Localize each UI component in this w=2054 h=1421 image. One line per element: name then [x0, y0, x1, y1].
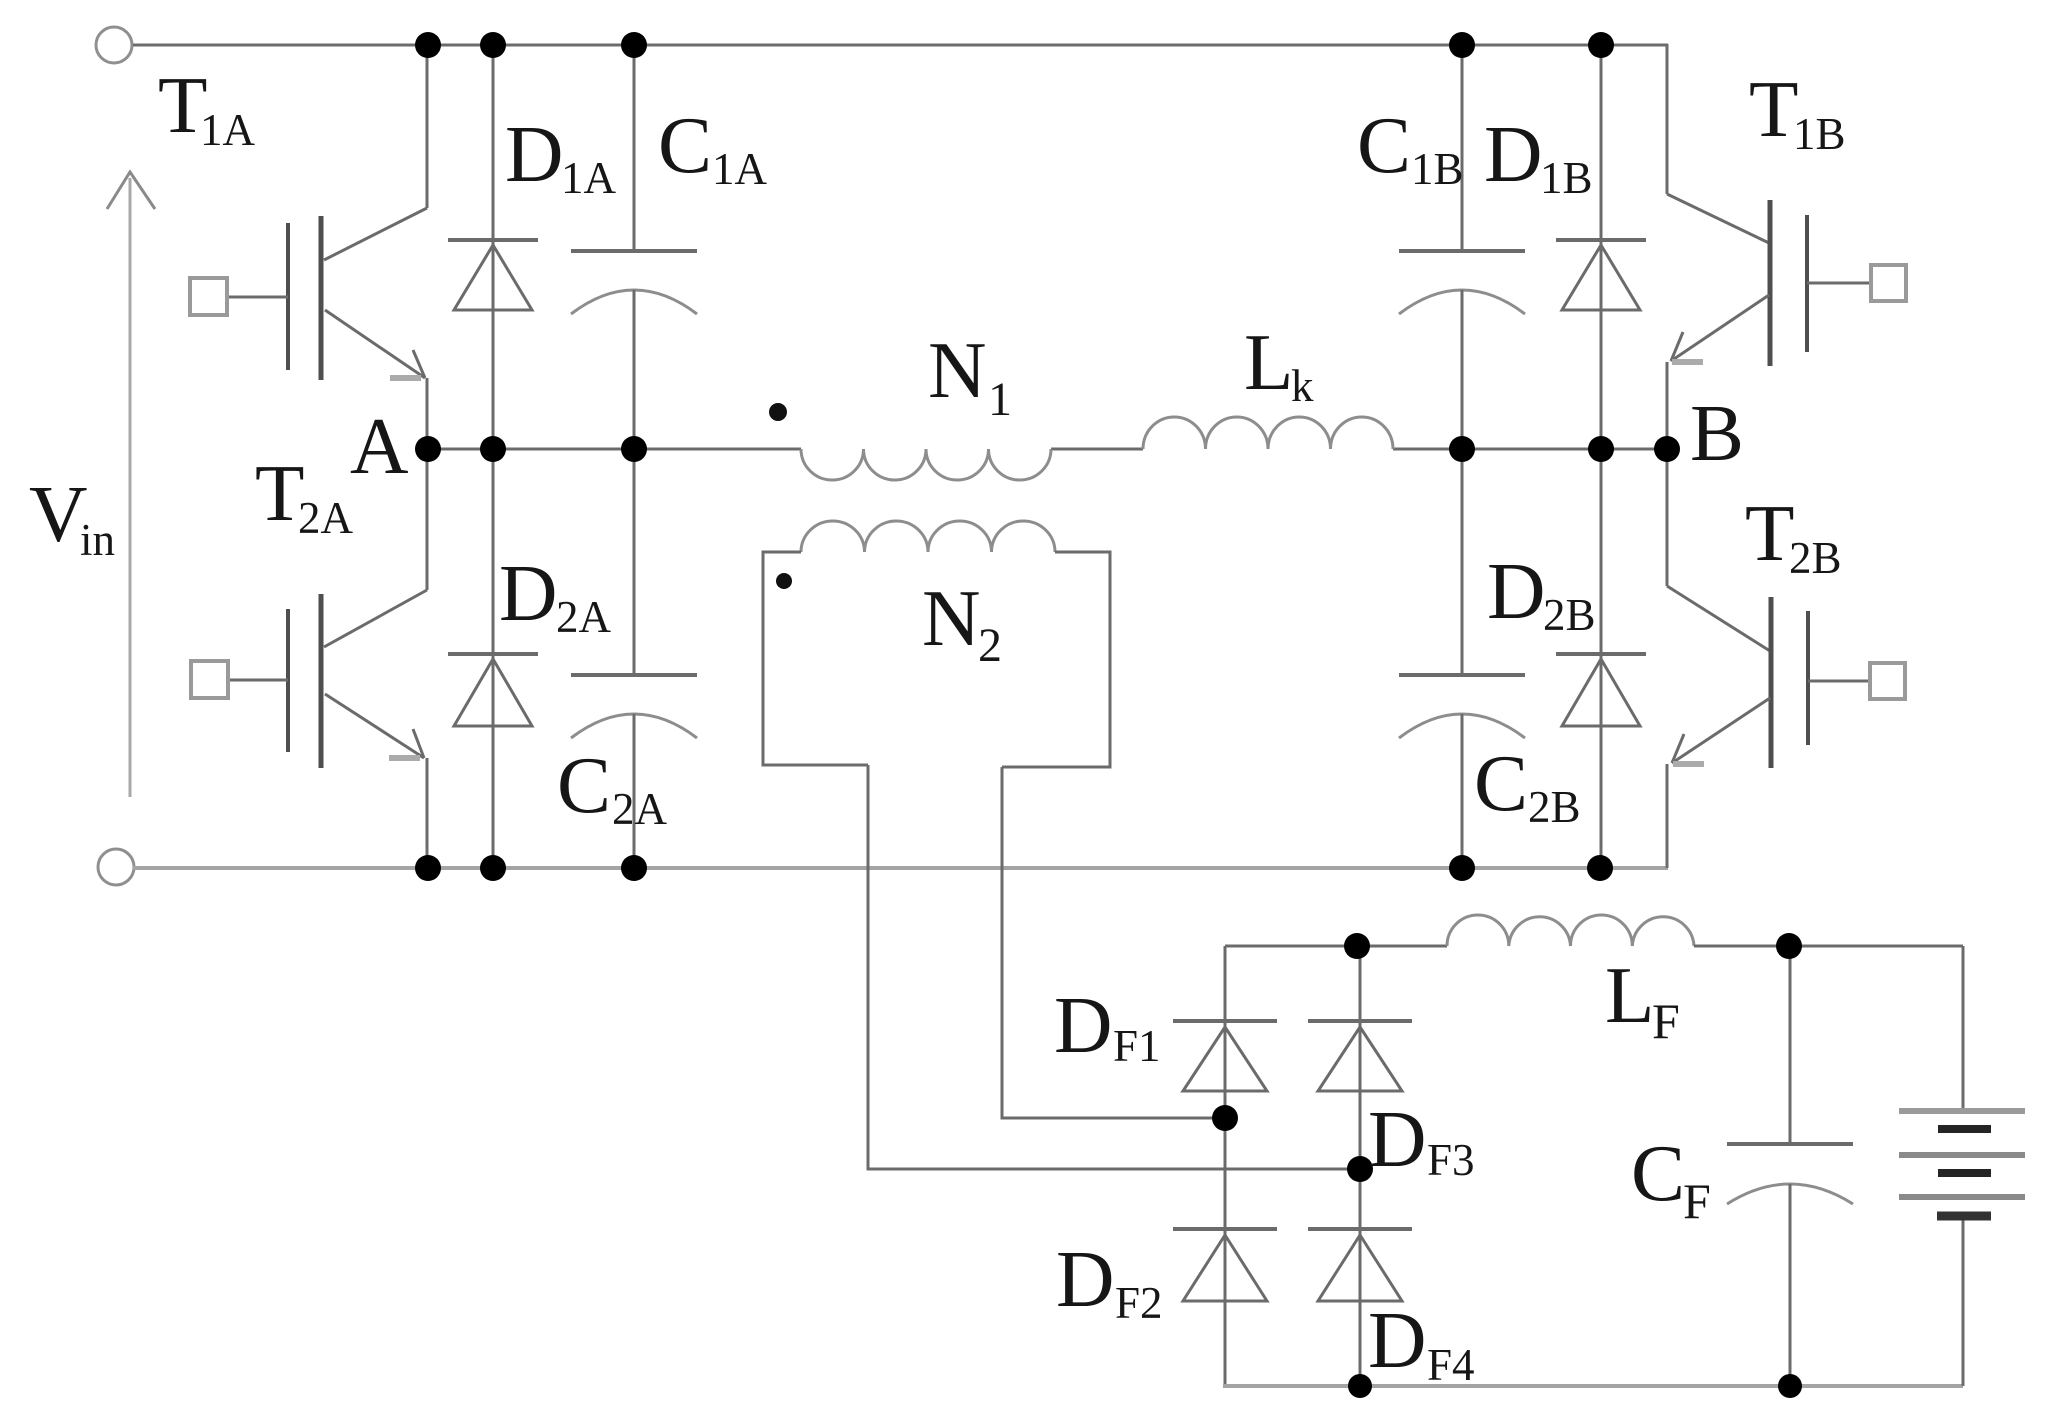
svg-text:F3: F3	[1427, 1135, 1475, 1185]
input terminal bottom-left	[98, 849, 134, 885]
junction bottom rail D2B	[1587, 855, 1613, 881]
diode D2A	[448, 449, 538, 868]
svg-text:2A: 2A	[556, 592, 612, 642]
junction DF3/DF4 midpoint	[1347, 1156, 1373, 1182]
svg-text:L: L	[1605, 950, 1654, 1040]
svg-text:2B: 2B	[1789, 533, 1842, 583]
svg-text:D: D	[1484, 109, 1543, 199]
diode DF4	[1308, 1229, 1412, 1301]
diode D1A	[448, 45, 538, 449]
junction top rail C1A	[621, 32, 647, 58]
svg-text:1: 1	[988, 373, 1012, 426]
junction node B D1B/D2B	[1588, 436, 1614, 462]
svg-text:D: D	[505, 109, 564, 199]
wire N1 to Lk	[1051, 448, 1143, 451]
svg-text:2: 2	[978, 619, 1002, 672]
capacitor C2B	[1399, 449, 1525, 868]
svg-text:D: D	[1487, 546, 1546, 636]
node dot N2 phase	[776, 573, 792, 589]
junction bottom rail C2B	[1449, 855, 1475, 881]
svg-text:D: D	[1056, 1234, 1115, 1324]
junction node A D1A/D2A	[480, 436, 506, 462]
svg-text:1B: 1B	[1540, 153, 1593, 203]
diode DF2	[1173, 1229, 1277, 1301]
wire N2 left lead	[868, 765, 1360, 1169]
capacitor CF	[1727, 946, 1853, 1386]
transistor Q T1A	[190, 45, 427, 449]
capacitor C1A	[571, 45, 697, 449]
wire rectifier left leg	[1224, 946, 1227, 1386]
svg-text:F: F	[1683, 1173, 1711, 1229]
inductor Lk	[1143, 417, 1393, 449]
svg-text:1B: 1B	[1411, 144, 1464, 194]
junction bottom rail C2A	[621, 855, 647, 881]
node dot N1 phase	[769, 403, 787, 421]
svg-text:D: D	[1368, 1295, 1427, 1385]
transistor Q T1B	[1667, 194, 1906, 449]
svg-text:V: V	[29, 469, 88, 559]
diode DF1	[1173, 1021, 1277, 1091]
wire bottom rail	[133, 866, 1668, 870]
svg-text:D: D	[1368, 1094, 1427, 1184]
svg-text:D: D	[1054, 980, 1113, 1070]
svg-text:N: N	[922, 573, 981, 663]
svg-text:2B: 2B	[1543, 590, 1596, 640]
wire battery bottom lead	[1962, 1216, 1965, 1386]
wire rectifier bottom rail	[1223, 1384, 1963, 1388]
diode D2B	[1556, 449, 1646, 868]
svg-text:F1: F1	[1113, 1021, 1161, 1071]
svg-text:C: C	[1357, 100, 1411, 190]
junction node B T1B/T2B	[1654, 436, 1680, 462]
svg-text:C: C	[557, 740, 611, 830]
svg-text:L: L	[1244, 317, 1293, 407]
svg-text:F2: F2	[1115, 1278, 1163, 1328]
transistor Q T2B	[1667, 449, 1905, 868]
svg-text:C: C	[1631, 1128, 1685, 1218]
junction node A C1A/C2A	[621, 436, 647, 462]
svg-text:C: C	[658, 100, 712, 190]
transistor Q T2A	[191, 449, 427, 868]
input terminal top-left	[96, 27, 132, 63]
svg-text:F: F	[1652, 993, 1680, 1049]
junction top rail D1A	[480, 32, 506, 58]
junction top rail T1A collector	[415, 32, 441, 58]
node A wire	[428, 448, 801, 451]
junction CF bottom	[1778, 1374, 1802, 1398]
junction CF top	[1776, 933, 1802, 959]
inductor N2 secondary winding	[801, 521, 1055, 552]
svg-text:A: A	[350, 401, 409, 491]
svg-text:T: T	[1745, 488, 1794, 578]
junction bottom rail T2A emitter	[415, 855, 441, 881]
junction DF1/DF2 midpoint	[1212, 1105, 1238, 1131]
battery Vo	[1899, 1111, 2025, 1216]
svg-text:2A: 2A	[612, 784, 668, 834]
svg-text:D: D	[499, 548, 558, 638]
junction node B C1B/C2B	[1449, 436, 1475, 462]
wire N2 right lead	[1002, 767, 1225, 1118]
svg-text:1A: 1A	[712, 144, 768, 194]
wire top rail	[133, 44, 1668, 47]
svg-text:F4: F4	[1427, 1340, 1475, 1390]
svg-text:T: T	[1749, 64, 1798, 154]
inductor LF	[1447, 915, 1694, 946]
wire top-right corner drop	[1666, 44, 1669, 194]
junction top rail C1B	[1449, 32, 1475, 58]
svg-text:B: B	[1690, 388, 1744, 478]
svg-text:1A: 1A	[200, 105, 256, 155]
capacitor C1B	[1399, 45, 1525, 449]
svg-text:N: N	[928, 325, 987, 415]
svg-text:k: k	[1291, 361, 1314, 411]
junction bottom rail D2A	[480, 855, 506, 881]
wire rectifier top rail	[1225, 945, 1447, 948]
wire battery top lead	[1962, 946, 1965, 1110]
capacitor C2A	[571, 449, 697, 868]
svg-text:1A: 1A	[561, 153, 617, 203]
diode DF3	[1308, 1021, 1412, 1091]
wire LF to battery	[1694, 945, 1963, 948]
wire N2 box	[763, 552, 1110, 767]
junction top rail D1B	[1588, 32, 1614, 58]
svg-text:2B: 2B	[1528, 782, 1581, 832]
inductor N1 primary winding	[801, 449, 1051, 480]
diode D1B	[1556, 45, 1646, 449]
svg-text:in: in	[80, 515, 115, 565]
junction rectifier bottom DF4	[1348, 1374, 1372, 1398]
svg-text:1B: 1B	[1793, 109, 1846, 159]
wire rectifier right leg	[1359, 946, 1362, 1386]
node B wire	[1393, 448, 1668, 451]
junction rectifier top DF3	[1344, 933, 1370, 959]
svg-text:C: C	[1474, 738, 1528, 828]
junction node A	[415, 436, 441, 462]
Vin arrow	[107, 172, 155, 797]
svg-text:2A: 2A	[298, 493, 354, 543]
